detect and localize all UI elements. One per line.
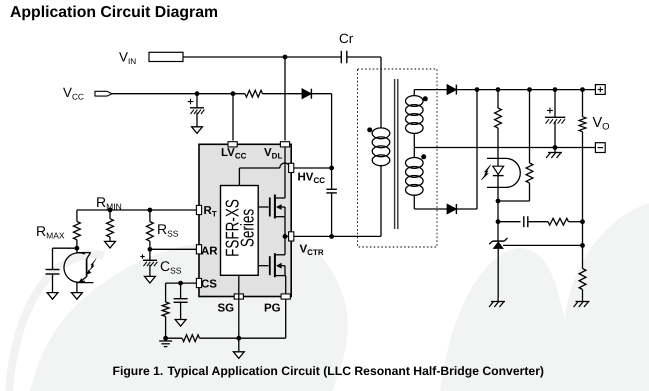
wire PG down xyxy=(285,276,287,339)
transistor Q1 (upper MOSFET) xyxy=(258,206,268,208)
svg-text:CS: CS xyxy=(201,279,217,291)
resistor (sense) xyxy=(166,337,183,339)
pin SG xyxy=(234,294,243,299)
ground (opto filter cap) xyxy=(47,293,58,300)
wire TL431 cathode xyxy=(497,201,499,241)
wire VIN rail xyxy=(183,56,341,58)
inductor secondary winding top xyxy=(406,96,424,107)
resistor (CS divider) xyxy=(165,283,167,302)
diode D_boot xyxy=(302,89,311,99)
wire VCC to LVCC xyxy=(232,94,234,141)
transformer dashed box xyxy=(358,69,438,247)
light bolt (LED) xyxy=(481,165,490,180)
diode D1 (top rectifier) xyxy=(447,85,456,95)
IC inner box FSFR-XS Series xyxy=(221,186,259,276)
diode D2 (bottom rectifier) xyxy=(447,204,456,214)
pin LVCC xyxy=(228,142,237,147)
capacitor C_out (electrolytic) xyxy=(554,90,556,118)
wire D2 to + rail xyxy=(476,90,478,209)
ground (TL431) xyxy=(491,301,505,303)
inductor secondary winding bottom xyxy=(406,158,424,169)
opto LED U2 xyxy=(487,158,520,187)
pin PG xyxy=(281,294,290,299)
wire AR xyxy=(150,248,197,250)
capacitor (CS filter) xyxy=(180,283,182,299)
ground (RMIN) xyxy=(105,241,116,248)
svg-text:Figure 1.: Figure 1. xyxy=(113,364,164,378)
resistor RMIN xyxy=(109,210,111,219)
svg-text:Application Circuit Diagram: Application Circuit Diagram xyxy=(10,4,218,21)
light arrows into Q3 xyxy=(88,259,96,272)
svg-text:AR: AR xyxy=(201,246,218,258)
ground (phototransistor) xyxy=(72,293,83,300)
wire opto bottom xyxy=(498,200,530,202)
pin HVCC xyxy=(289,163,294,172)
node VCTR junction xyxy=(283,234,288,239)
pin CS xyxy=(196,278,201,287)
resistor (compensation) xyxy=(548,218,569,225)
terminal - xyxy=(595,143,605,153)
wire diode to HVCC node xyxy=(311,93,332,95)
transformer core xyxy=(394,79,396,229)
wire TL431 ref xyxy=(503,244,583,246)
capacitor C_boot xyxy=(326,188,337,190)
resistor R_VCC xyxy=(245,90,263,97)
svg-text:SG: SG xyxy=(218,303,235,315)
resistor (opto bias) xyxy=(529,90,531,163)
TL431 shunt regulator xyxy=(493,240,505,242)
pin RT xyxy=(196,205,201,214)
wire RT rail xyxy=(77,209,196,211)
svg-text:Cr: Cr xyxy=(339,31,354,46)
wire VIN to VDL xyxy=(284,57,286,141)
pin AR xyxy=(196,245,201,254)
wire secondary center tap xyxy=(413,134,415,159)
resistor RMAX xyxy=(76,210,78,222)
transistor Q2 (lower MOSFET) xyxy=(258,265,268,267)
ground (divider) xyxy=(582,298,584,301)
svg-text:Series: Series xyxy=(237,209,258,247)
transistor Q3 (opto phototransistor) xyxy=(76,248,78,252)
ground (output - rail) xyxy=(554,148,556,153)
wire VCC rail xyxy=(112,93,245,95)
svg-text:PG: PG xyxy=(264,303,281,315)
svg-text:Typical Application Circuit (L: Typical Application Circuit (LLC Resonan… xyxy=(168,364,545,378)
ground (CS sense) xyxy=(165,338,167,341)
resistor (LED series) xyxy=(497,90,499,108)
wire internal HVCC xyxy=(238,168,240,186)
ground (VCC cap) xyxy=(192,127,203,134)
resistor (divider lower) xyxy=(579,269,586,290)
ground (SG) xyxy=(238,338,240,352)
wire output + rail xyxy=(457,89,596,91)
pin VDL xyxy=(280,142,289,147)
capacitor C_VCC (electrolytic) xyxy=(196,94,198,108)
ground (CS filter cap) xyxy=(175,320,186,327)
terminal + xyxy=(595,85,605,95)
inductor primary winding xyxy=(372,128,390,139)
pin VCTR xyxy=(289,232,294,241)
ground (CSS) xyxy=(145,276,156,283)
resistor (divider upper) xyxy=(582,90,584,117)
wire SG down xyxy=(238,275,240,338)
wire CS xyxy=(166,282,197,284)
capacitor (opto filter) xyxy=(53,247,77,249)
wire Cr to primary xyxy=(380,57,382,129)
op-amp U1 FSFR-XS IC body xyxy=(199,144,291,296)
wire primary bottom to VCTR xyxy=(380,165,382,236)
capacitor (compensation) xyxy=(498,221,521,223)
